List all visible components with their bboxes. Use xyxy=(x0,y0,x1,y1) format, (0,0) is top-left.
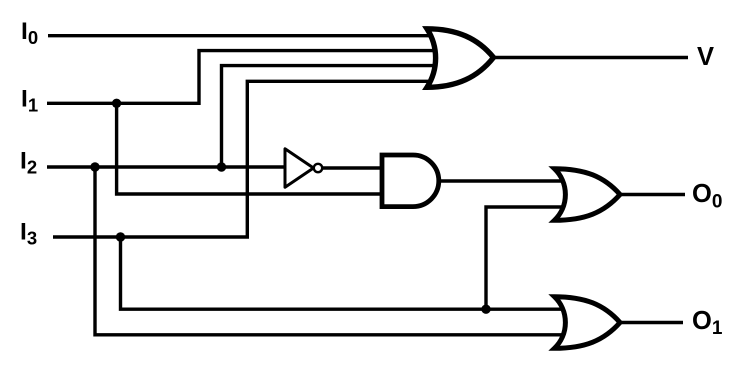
wire I3 branch down to OR U5 input 1 xyxy=(121,237,569,309)
svg-text:O0: O0 xyxy=(692,180,722,213)
node junction dot on I2 left xyxy=(90,162,99,171)
node junction dot on I2 right xyxy=(217,162,226,171)
wire I1 branch down to AND U3 input 2 xyxy=(117,103,388,194)
wire OR U1 output to V xyxy=(491,56,688,59)
node junction dot on I3 xyxy=(116,232,125,241)
wire I2 branch down to OR U5 input 2 xyxy=(95,167,568,335)
wire I1 horizontal then up to OR U1 input 2 xyxy=(47,51,441,104)
wire I2 horizontal to inverter U2 xyxy=(47,165,290,168)
wire OR U5 output to O1 xyxy=(618,321,683,324)
svg-text:V: V xyxy=(697,43,714,71)
wire OR U4 output to O0 xyxy=(618,193,685,196)
or-gate U1 (4-input, output V) xyxy=(427,29,494,88)
svg-text:O1: O1 xyxy=(692,307,723,339)
inverter U2 bubble xyxy=(314,164,322,172)
wire I2 branch up to OR U1 input 3 xyxy=(222,66,442,167)
svg-text:I2: I2 xyxy=(20,148,37,178)
wire inverter U2 output to AND U3 input 1 xyxy=(322,166,388,169)
node junction dot on O1 input wire xyxy=(481,305,490,314)
svg-text:I0: I0 xyxy=(21,18,38,48)
node junction dot on I1 xyxy=(112,99,121,108)
or-gate U5 (output O1) xyxy=(555,297,621,349)
wire I3 horizontal then up to OR U1 input 4 xyxy=(53,81,441,237)
wire I0 horizontal to OR U1 xyxy=(48,34,441,37)
or-gate U4 (output O0) xyxy=(555,169,621,221)
and-gate U3 xyxy=(382,155,439,207)
svg-text:I1: I1 xyxy=(21,86,38,116)
inverter U2 xyxy=(285,149,314,187)
wire branch up from node to OR U4 input 2 xyxy=(486,207,568,309)
wire AND U3 output to OR U4 input 1 xyxy=(437,179,568,182)
svg-text:I3: I3 xyxy=(20,219,37,249)
